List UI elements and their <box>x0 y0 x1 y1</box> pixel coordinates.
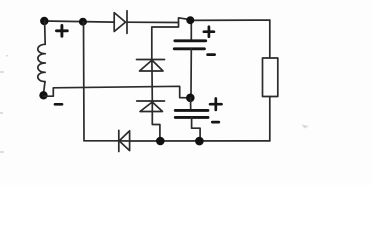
capacitor C1 bottom lead <box>190 49 192 94</box>
node A dot <box>186 16 194 24</box>
capacitor C1 plates <box>174 41 205 49</box>
wire branch from jog down to middle diode column <box>152 23 179 60</box>
node E dot <box>195 137 204 146</box>
node dot1 (source + terminal) <box>40 17 48 25</box>
diode D4 (bottom rail, pointing left) <box>119 130 130 151</box>
label - (source) <box>55 103 62 106</box>
resistor R1 (load) <box>263 58 278 97</box>
node D dot (C1/C2 junction) <box>186 94 195 103</box>
node dotC (source - terminal) <box>39 91 47 99</box>
diode D3 (middle lower, pointing up) <box>137 101 165 112</box>
label + (C1) <box>204 27 214 37</box>
label + (source) <box>57 25 68 36</box>
node B dot <box>156 137 165 146</box>
wire column through D2 down to D3 <box>151 60 153 102</box>
wire D3 anode down with jog to node B <box>152 101 160 138</box>
capacitor C2 bottom lead with jog to node E <box>192 117 201 138</box>
wire top rail left (dot1 to D1 anode) <box>44 21 114 22</box>
label + (C2) <box>210 99 221 110</box>
inductor L1 (transformer secondary coil) <box>38 21 46 92</box>
wire bottom rail (left corner to right corner) <box>84 140 270 142</box>
label - (C1) <box>208 53 215 56</box>
capacitor C2 plates <box>175 110 208 117</box>
wire D1 cathode to node A with jog <box>127 18 190 23</box>
diode D1 <box>114 11 127 34</box>
label - (C2) <box>212 121 219 124</box>
diode D2 (middle upper, pointing up) <box>137 60 165 72</box>
wire node A to top-right corner <box>190 19 270 21</box>
wire left vertical dot2 down to bottom rail <box>83 22 86 141</box>
wire center wire from dotC to node D (with jogs) <box>44 86 187 98</box>
capacitor C1 top lead <box>190 20 192 39</box>
wire right loop vertical up from bottom rail to resistor <box>269 97 271 141</box>
node dot2 (top rail junction) <box>79 18 87 26</box>
capacitor C2 top lead <box>190 98 192 109</box>
wire resistor top lead to top rail <box>269 20 271 58</box>
